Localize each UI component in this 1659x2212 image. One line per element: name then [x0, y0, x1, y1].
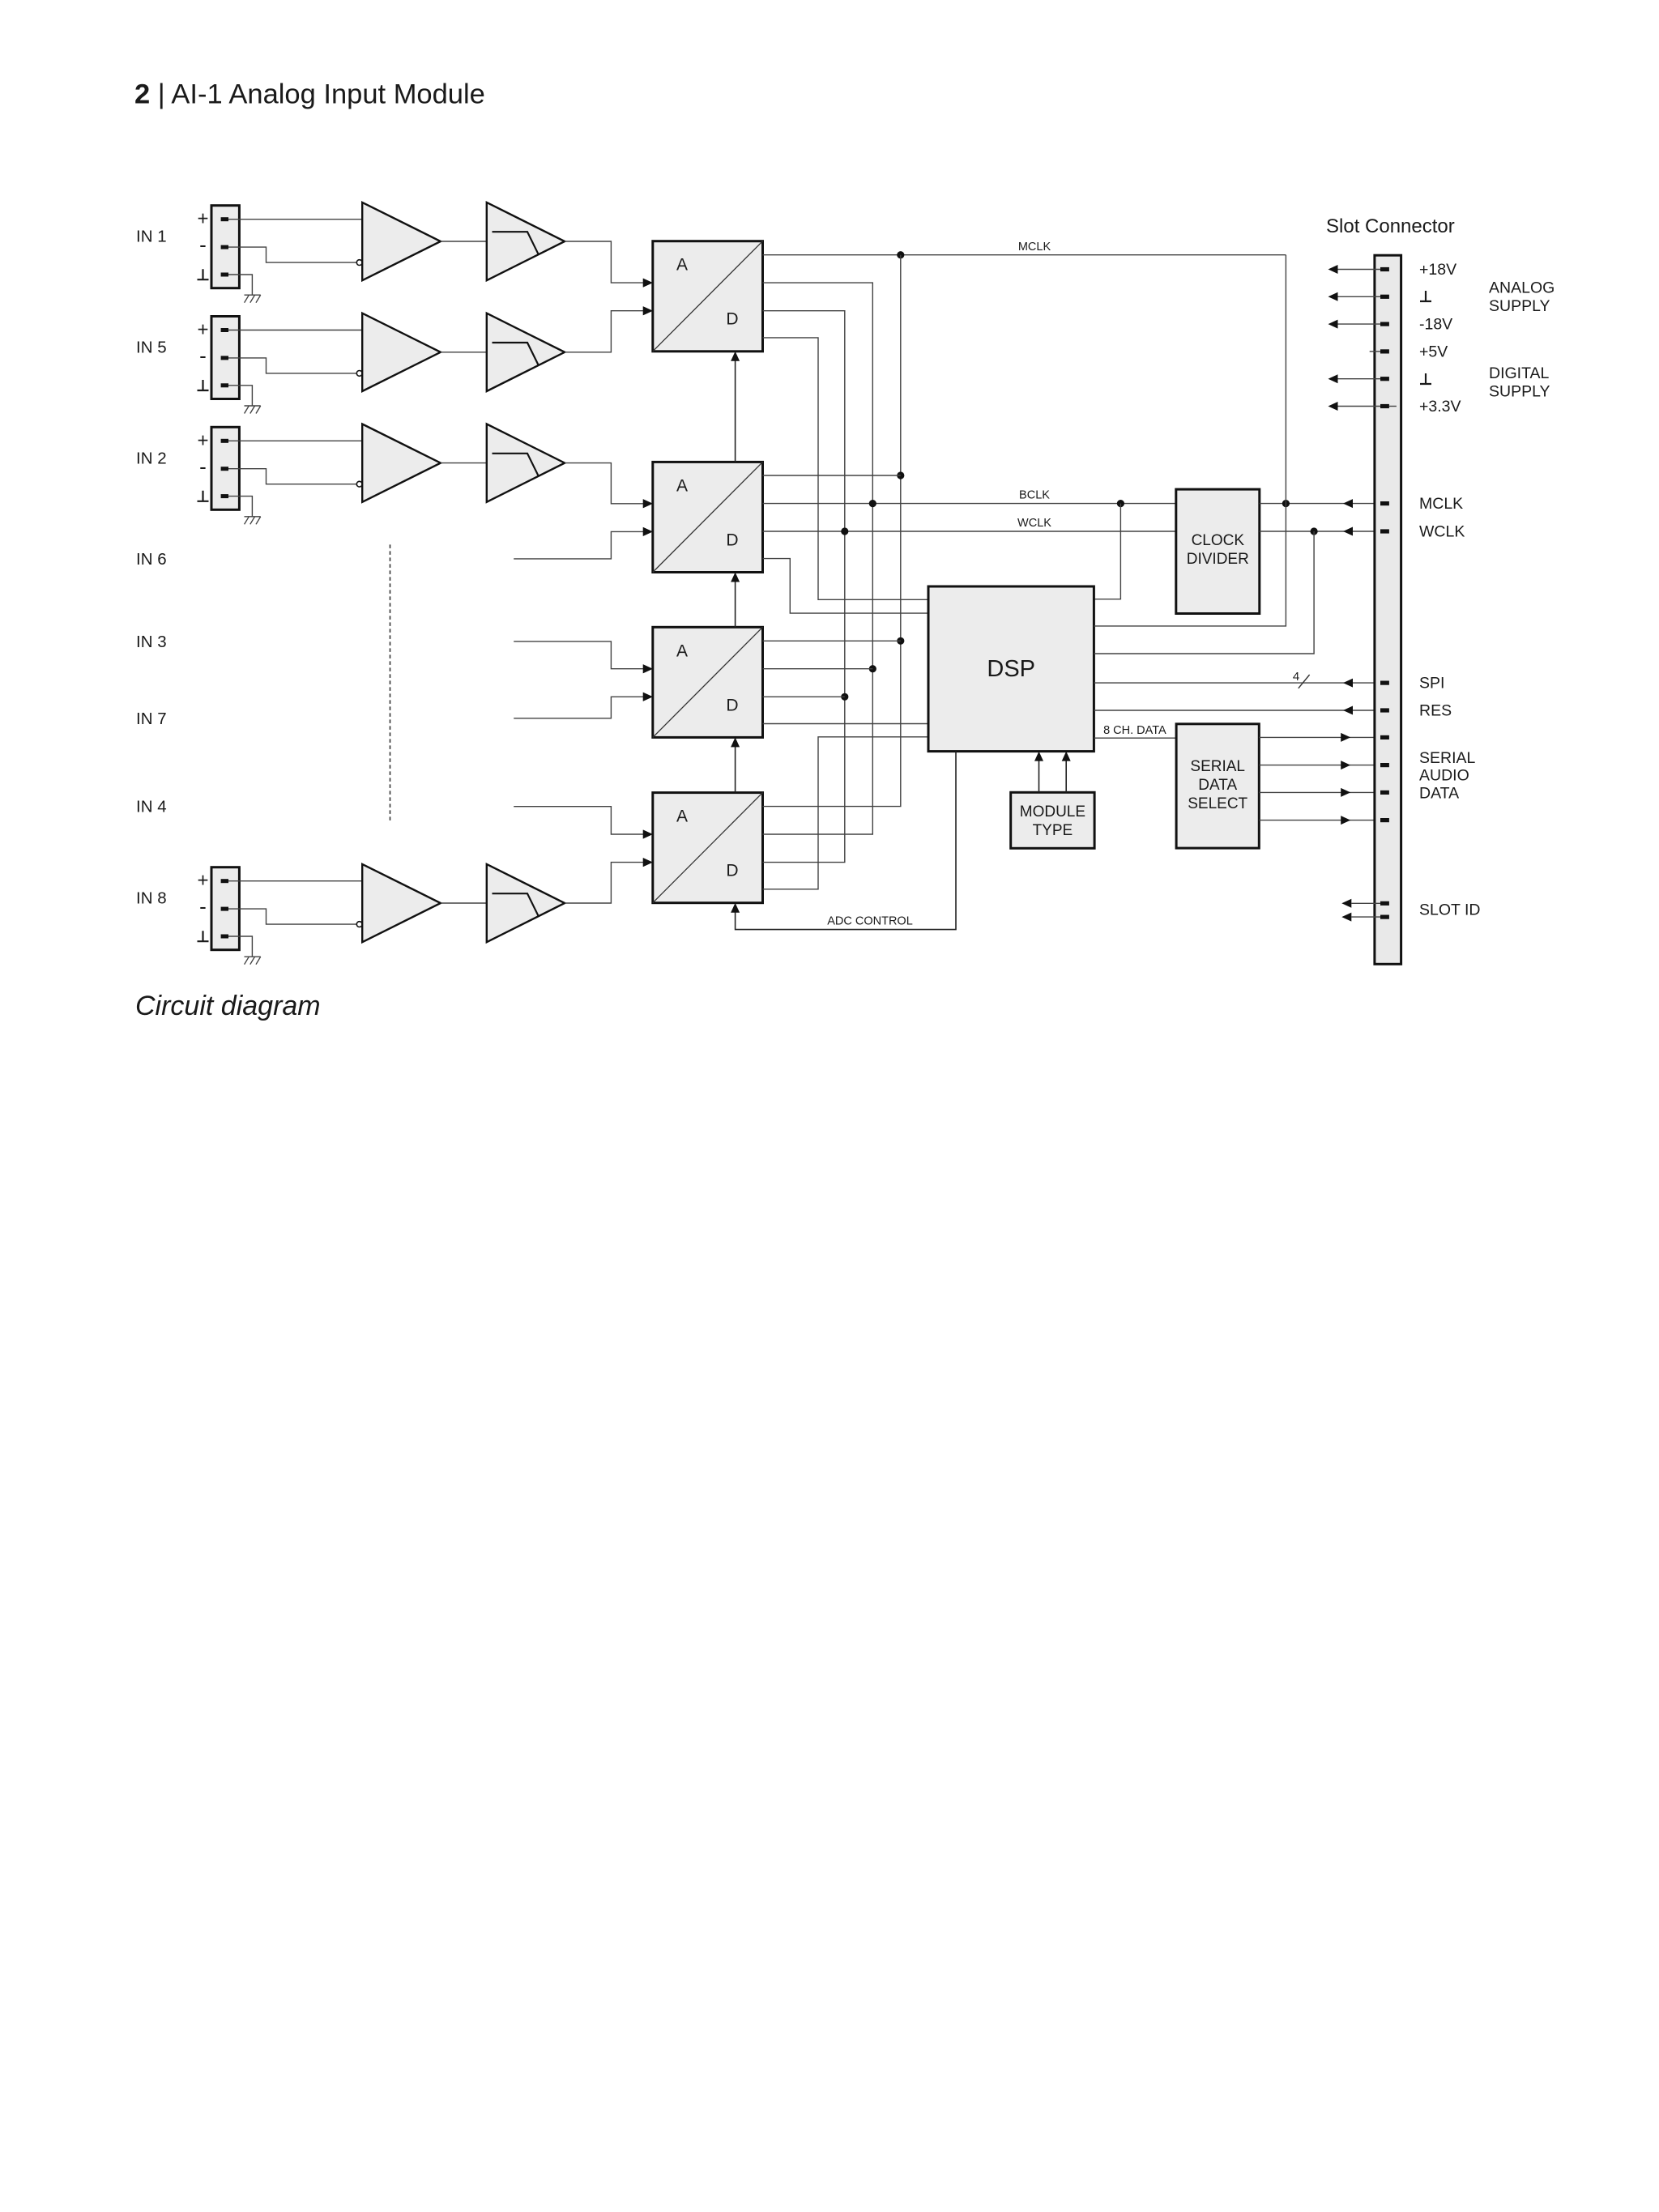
wire supply line [1338, 406, 1381, 407]
wire supply line [1338, 269, 1381, 271]
pin gnd of IN 5 [221, 383, 228, 387]
svg-text:A: A [676, 808, 688, 826]
svg-text:IN 4: IN 4 [136, 798, 167, 816]
wire U2 data to DSP [763, 559, 929, 614]
input arrow 1 U1 [643, 279, 653, 288]
wire IN 3 to ADC input [514, 641, 644, 669]
wire IN8- jog to inverting input [228, 909, 356, 924]
wire IN1- jog to inverting input [228, 247, 356, 262]
svg-text:DATA: DATA [1198, 777, 1237, 794]
wire filter output to ADC input [565, 463, 644, 504]
svg-text:Circuit diagram: Circuit diagram [135, 991, 321, 1021]
svg-text:A: A [676, 641, 688, 660]
svg-text:SELECT: SELECT [1188, 795, 1247, 812]
label gnd symbol [198, 269, 209, 279]
node MCLK at U2 [897, 471, 904, 479]
svg-text:MODULE: MODULE [1020, 803, 1085, 820]
op-amp IN8 [362, 864, 441, 942]
A/D converter U3 [653, 627, 763, 737]
pin + of IN 5 [221, 328, 228, 332]
svg-text:2 | AI-1 Analog Input Module: 2 | AI-1 Analog Input Module [134, 79, 485, 110]
inverting input bubble IN8 [356, 922, 362, 927]
svg-text:A: A [676, 476, 688, 495]
arrow supply out [1328, 402, 1338, 411]
svg-text:DATA: DATA [1419, 785, 1459, 803]
svg-text:IN 8: IN 8 [136, 889, 167, 908]
low-pass symbol [493, 343, 539, 366]
wire MCLK top run [763, 254, 1286, 256]
pin + of IN 2 [221, 439, 228, 443]
node BCLK bus junction [869, 500, 876, 507]
wire filter output to ADC input [565, 241, 644, 283]
wire serial audio data line [1259, 736, 1380, 738]
input arrow 1 U3 [643, 664, 653, 673]
connector pin [1380, 915, 1389, 919]
svg-text:RES: RES [1419, 702, 1452, 720]
inverting input bubble IN1 [356, 260, 362, 266]
wire U2 mclk stub [763, 475, 901, 476]
svg-text:SERIAL: SERIAL [1419, 749, 1476, 767]
arrow serial audio data [1341, 761, 1350, 769]
arrow supply out [1328, 320, 1338, 329]
pin + of IN 8 [221, 879, 228, 883]
wire serial audio data line [1259, 765, 1380, 766]
connector pin [1380, 267, 1389, 271]
wire WCLK pin row [1260, 531, 1380, 532]
arrow slot id [1341, 899, 1351, 908]
pin gnd of IN 8 [221, 935, 228, 939]
pin gnd of IN 2 [221, 494, 228, 498]
svg-text:+5V: +5V [1419, 343, 1448, 360]
svg-text:WCLK: WCLK [1017, 517, 1051, 530]
wire MCLK riser/dropper [1094, 255, 1286, 626]
ADC control chain arrow [735, 360, 736, 462]
low-pass symbol [493, 893, 539, 917]
svg-text:IN 6: IN 6 [136, 550, 167, 569]
chassis ground symbol [245, 405, 261, 407]
svg-text:D: D [726, 862, 738, 880]
connector pin [1380, 295, 1389, 299]
DSP U5 [928, 586, 1094, 752]
arrow serial audio data [1341, 733, 1350, 742]
arrow SPI into DSP [1343, 679, 1353, 688]
chassis ground symbol [245, 956, 261, 957]
wire BCLK bus vertical [763, 283, 873, 834]
connector pin [1380, 501, 1389, 505]
svg-text:SUPPLY: SUPPLY [1489, 383, 1550, 401]
wire IN8 gnd to chassis ground [228, 936, 252, 957]
A/D converter U1 [653, 241, 763, 352]
wire U3 wclk stub [763, 696, 845, 697]
svg-text:-: - [199, 232, 207, 257]
inverting input bubble IN5 [356, 371, 362, 377]
svg-text:AUDIO: AUDIO [1419, 767, 1469, 785]
node WCLK pin junction [1311, 527, 1318, 535]
node MCLK branch [897, 251, 904, 258]
svg-text:DIVIDER: DIVIDER [1187, 551, 1249, 568]
svg-text:+: + [197, 319, 208, 341]
wire U3 mclk stub [763, 640, 901, 641]
module type U7 [1011, 792, 1094, 848]
wire serial audio data line [1259, 791, 1380, 793]
chassis ground symbol [245, 516, 261, 518]
svg-text:-: - [199, 343, 207, 368]
svg-text:IN 2: IN 2 [136, 449, 167, 467]
ADC control chain arrow [735, 745, 736, 792]
input terminal block IN 2 [211, 427, 239, 509]
node MCLK at U3 [897, 637, 904, 645]
wire slot id line [1351, 902, 1380, 904]
arrow MCLK into module [1343, 499, 1353, 508]
arrow supply out [1328, 265, 1338, 274]
wire IN8+ to amplifier [228, 880, 363, 882]
arrow serial audio data [1341, 816, 1350, 825]
node WCLK at U3 [841, 693, 848, 701]
wire IN2+ to amplifier [228, 440, 363, 441]
svg-text:Slot Connector: Slot Connector [1326, 215, 1455, 237]
connector pin [1380, 529, 1389, 533]
module type arrow to DSP [1065, 759, 1067, 793]
wire IN1 gnd to chassis ground [228, 275, 252, 295]
connector pin [1380, 349, 1389, 353]
input arrow 1 U4 [643, 830, 653, 839]
wire amp to filter IN1 [441, 241, 487, 242]
wire WCLK to DSP [1094, 531, 1314, 654]
serial data select U8 [1176, 724, 1259, 848]
wire IN 6 to ADC input [514, 531, 644, 559]
svg-text:TYPE: TYPE [1033, 822, 1073, 839]
svg-text:SERIAL: SERIAL [1190, 758, 1245, 775]
wire IN 7 to ADC input [514, 697, 644, 718]
connector pin [1380, 377, 1389, 381]
wire supply line [1338, 323, 1381, 325]
wire IN2 gnd to chassis ground [228, 497, 252, 517]
svg-text:8 CH. DATA: 8 CH. DATA [1103, 724, 1166, 737]
node MCLK pin junction [1282, 500, 1290, 507]
arrow supply out [1328, 374, 1338, 383]
svg-text:D: D [726, 531, 738, 549]
low-pass symbol [493, 454, 539, 477]
svg-text:4: 4 [1293, 670, 1299, 684]
svg-text:D: D [726, 310, 738, 329]
clock divider U6 [1176, 489, 1260, 613]
wire +3.3V stub [1389, 406, 1397, 407]
ADC control chain arrow [735, 581, 736, 628]
input terminal block IN 8 [211, 867, 239, 950]
svg-text:DSP: DSP [987, 656, 1035, 682]
A/D converter U2 [653, 462, 763, 572]
pin - of IN 2 [221, 467, 228, 471]
node BCLK at U3 [869, 665, 876, 672]
svg-text:+: + [197, 208, 208, 230]
label gnd symbol [198, 931, 209, 941]
wire ADC CONTROL [736, 752, 956, 930]
label analog gnd [1420, 291, 1431, 301]
svg-text:ANALOG: ANALOG [1489, 279, 1555, 297]
op-amp IN5 [362, 313, 441, 391]
arrow RES into DSP [1343, 706, 1353, 715]
svg-text:+3.3V: +3.3V [1419, 398, 1461, 416]
wire supply line [1338, 378, 1381, 380]
svg-text:DIGITAL: DIGITAL [1489, 364, 1550, 382]
module type arrow to DSP [1038, 759, 1040, 793]
svg-text:MCLK: MCLK [1018, 241, 1051, 254]
svg-text:IN 1: IN 1 [136, 228, 167, 246]
wire serial audio data line [1259, 820, 1380, 821]
wire filter output to ADC input [565, 863, 644, 903]
connector pin [1380, 763, 1389, 767]
wire filter output to ADC input [565, 311, 644, 352]
arrow serial audio data [1341, 788, 1350, 797]
op-amp IN2 [362, 424, 441, 502]
svg-text:SPI: SPI [1419, 675, 1444, 693]
svg-text:WCLK: WCLK [1419, 523, 1465, 541]
svg-text:SUPPLY: SUPPLY [1489, 297, 1550, 315]
svg-text:+: + [197, 870, 208, 892]
input terminal block IN 1 [211, 206, 239, 288]
svg-text:D: D [726, 696, 738, 714]
label gnd symbol [198, 491, 209, 501]
wire WCLK bus vertical [763, 311, 845, 863]
wire IN 4 to ADC input [514, 807, 644, 834]
wire IN5- jog to inverting input [228, 358, 356, 373]
A/D converter U4 [653, 793, 763, 903]
ellipsis dashed line (channels 3..7 repeated) [390, 544, 391, 820]
wire IN1+ to amplifier [228, 219, 363, 220]
node WCLK bus junction [841, 527, 848, 535]
wire amp to filter IN2 [441, 462, 487, 464]
chassis ground symbol [245, 294, 261, 296]
low-pass filter IN5 [487, 313, 565, 391]
connector pin [1380, 404, 1389, 408]
arrow WCLK into module [1343, 527, 1353, 536]
wire RES [1094, 710, 1380, 711]
svg-text:BCLK: BCLK [1019, 489, 1050, 502]
wire IN5+ to amplifier [228, 330, 363, 331]
connector pin [1380, 735, 1389, 739]
svg-text:MCLK: MCLK [1419, 495, 1463, 513]
wire U3 bclk stub [763, 668, 873, 670]
svg-text:-: - [199, 894, 207, 918]
low-pass symbol [493, 232, 539, 255]
label digital gnd [1420, 373, 1431, 384]
wire 8 CH. DATA [1094, 737, 1176, 739]
wire WCLK horizontal run [763, 531, 1176, 532]
svg-text:-18V: -18V [1419, 316, 1452, 334]
svg-text:+: + [197, 429, 208, 451]
input arrow 2 U3 [643, 693, 653, 701]
low-pass filter IN8 [487, 864, 565, 942]
connector pin [1380, 818, 1389, 822]
pin - of IN 8 [221, 907, 228, 911]
wire MCLK pin row [1260, 503, 1380, 505]
svg-text:IN 5: IN 5 [136, 339, 167, 357]
wire IN2- jog to inverting input [228, 469, 356, 484]
slot connector bar [1375, 255, 1401, 964]
svg-text:IN 3: IN 3 [136, 633, 167, 651]
wire U4 data to DSP [763, 737, 929, 889]
svg-text:A: A [676, 256, 688, 275]
node BCLK to DSP junction [1117, 500, 1124, 507]
connector pin [1380, 901, 1389, 906]
wire BCLK horizontal run [763, 503, 1176, 505]
wire SPI bus [1094, 682, 1380, 684]
svg-text:ADC CONTROL: ADC CONTROL [827, 915, 913, 928]
low-pass filter IN1 [487, 202, 565, 280]
op-amp IN1 [362, 202, 441, 280]
wire U1 data to DSP [763, 338, 929, 599]
pin - of IN 1 [221, 245, 228, 249]
wire amp to filter IN8 [441, 902, 487, 904]
input terminal block IN 5 [211, 317, 239, 399]
label gnd symbol [198, 380, 209, 390]
connector pin [1380, 322, 1389, 326]
wire MCLK bus vertical [763, 255, 901, 807]
wire U3 data to DSP [763, 723, 929, 725]
connector pin [1380, 681, 1389, 685]
pin gnd of IN 1 [221, 273, 228, 277]
bus width slash [1299, 675, 1310, 688]
wire IN5 gnd to chassis ground [228, 386, 252, 406]
low-pass filter IN2 [487, 424, 565, 502]
input arrow 1 U2 [643, 499, 653, 508]
wire supply line [1338, 296, 1381, 297]
input arrow 2 U4 [643, 858, 653, 867]
svg-text:CLOCK: CLOCK [1192, 532, 1245, 549]
wire +5V stub [1370, 351, 1380, 352]
arrow supply out [1328, 292, 1338, 301]
connector pin [1380, 708, 1389, 712]
svg-text:+18V: +18V [1419, 261, 1456, 279]
svg-text:SLOT ID: SLOT ID [1419, 901, 1481, 918]
wire amp to filter IN5 [441, 352, 487, 353]
wire slot id line [1351, 916, 1380, 918]
svg-text:IN 7: IN 7 [136, 710, 167, 728]
input arrow 2 U1 [643, 306, 653, 315]
input arrow 2 U2 [643, 527, 653, 536]
wire BCLK to DSP [1094, 504, 1120, 599]
pin + of IN 1 [221, 217, 228, 221]
svg-text:-: - [199, 454, 207, 479]
pin - of IN 5 [221, 356, 228, 360]
inverting input bubble IN2 [356, 481, 362, 487]
arrow slot id [1341, 913, 1351, 922]
connector pin [1380, 791, 1389, 795]
